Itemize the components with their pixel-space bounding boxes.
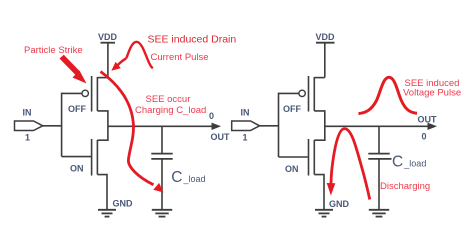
transistor PMOS (right, OFF) xyxy=(279,76,325,112)
curve SEE induced voltage pulse (bell) xyxy=(359,77,418,113)
curve SEE occur charging (big S-curve to capacitor) xyxy=(101,72,164,193)
ground (left NMOS) xyxy=(98,210,116,217)
svg-text:IN: IN xyxy=(241,108,250,118)
svg-text:IN: IN xyxy=(23,108,32,118)
svg-text:0: 0 xyxy=(209,111,214,121)
svg-text:1: 1 xyxy=(25,133,30,143)
arrow particle strike xyxy=(60,55,87,84)
capacitor C_load (right) xyxy=(368,126,391,210)
svg-text:C: C xyxy=(171,169,182,186)
svg-text:Current Pulse: Current Pulse xyxy=(151,52,209,63)
curve SEE induced drain current pulse (small bell) xyxy=(126,42,152,69)
svg-text:SEE occur: SEE occur xyxy=(146,94,191,105)
label C_load (right) xyxy=(392,154,426,171)
capacitor C_load (left) xyxy=(151,126,172,210)
input port IN (left) xyxy=(15,121,62,131)
svg-text:OUT: OUT xyxy=(418,115,438,125)
VDD power symbol (right) xyxy=(316,43,335,78)
svg-text:0: 0 xyxy=(422,132,427,142)
wire NMOS source to ground (left) xyxy=(97,175,107,210)
svg-text:_load: _load xyxy=(403,159,426,169)
wire drain rail (left) xyxy=(97,111,108,140)
svg-text:Voltage Pulse: Voltage Pulse xyxy=(403,88,461,99)
svg-text:_load: _load xyxy=(183,174,206,184)
svg-text:Discharging: Discharging xyxy=(380,181,430,192)
svg-text:GND: GND xyxy=(329,199,350,209)
ground (right capacitor) xyxy=(369,210,389,217)
ground (left capacitor) xyxy=(152,210,172,217)
svg-text:VDD: VDD xyxy=(98,32,118,42)
svg-text:1: 1 xyxy=(243,133,248,143)
transistor NMOS (right, ON) xyxy=(279,139,315,176)
wire output (left) with arrow xyxy=(108,123,221,130)
wire gate bus (left) xyxy=(61,93,63,157)
svg-text:C: C xyxy=(392,154,403,171)
svg-text:Charging C_load: Charging C_load xyxy=(135,105,206,116)
arrow to drain (current pulse) xyxy=(111,58,126,71)
transistor NMOS (left, ON) xyxy=(62,139,98,176)
VDD power symbol (left) xyxy=(101,43,116,78)
transistor PMOS (left, OFF) xyxy=(62,76,108,112)
wire drain rail (right) xyxy=(314,111,325,140)
svg-text:VDD: VDD xyxy=(316,32,336,42)
input port IN (right) xyxy=(232,121,279,131)
svg-text:GND: GND xyxy=(113,199,134,209)
svg-text:ON: ON xyxy=(70,164,84,174)
wire gate bus (right) xyxy=(278,93,280,157)
svg-text:SEE induced Drain: SEE induced Drain xyxy=(148,34,237,46)
ground (right NMOS) xyxy=(315,210,333,217)
curve discharging (arc from cap to GND) xyxy=(327,129,370,200)
svg-text:OFF: OFF xyxy=(283,104,301,114)
svg-text:OFF: OFF xyxy=(68,104,86,114)
label C_load (left) xyxy=(171,169,205,186)
svg-text:Particle Strike: Particle Strike xyxy=(24,45,83,56)
svg-text:ON: ON xyxy=(285,164,299,174)
wire output (right) with arrow xyxy=(325,123,437,130)
svg-text:OUT: OUT xyxy=(211,132,231,142)
wire NMOS source to ground (right) xyxy=(314,175,324,210)
